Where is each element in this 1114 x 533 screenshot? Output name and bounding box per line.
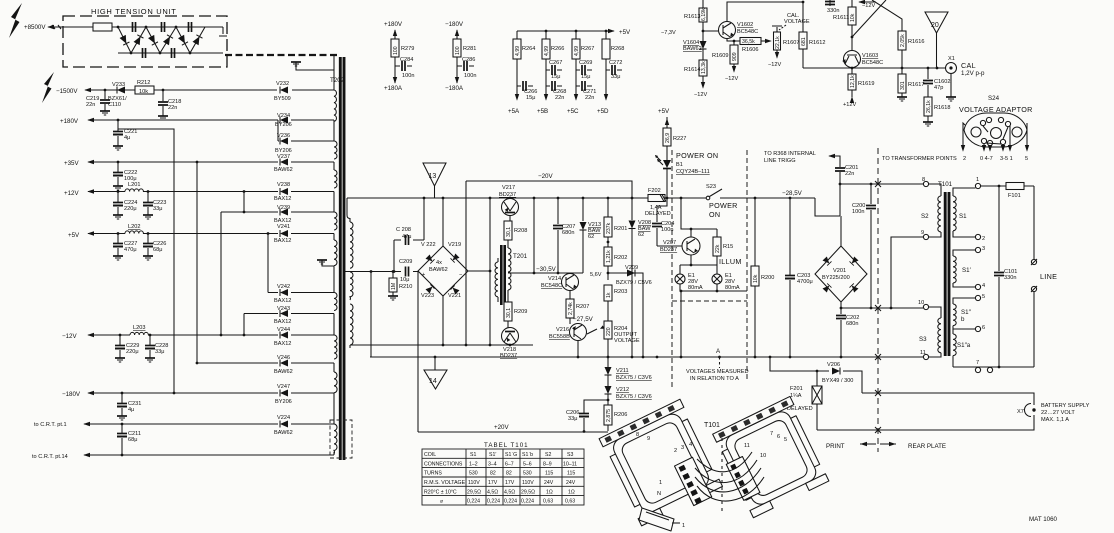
svg-text:V242: V242 xyxy=(277,284,290,290)
svg-text:BY206: BY206 xyxy=(275,399,292,405)
line 345 xyxy=(489,344,492,347)
svg-text:22n: 22n xyxy=(555,95,564,101)
svg-text:V1603: V1603 xyxy=(862,53,878,59)
lamp rail xyxy=(680,265,717,274)
capacitor (HT top 1) xyxy=(133,22,136,32)
svg-text:0,224: 0,224 xyxy=(487,499,500,505)
svg-text:R281: R281 xyxy=(463,46,476,52)
adaptor leads xyxy=(963,123,1027,149)
capacitor C269 xyxy=(576,69,592,71)
resistor (HT) xyxy=(93,23,112,31)
svg-text:V233: V233 xyxy=(112,82,125,88)
svg-text:R227: R227 xyxy=(673,136,686,142)
lamp E1 (left) xyxy=(675,274,685,284)
resistor R1613 xyxy=(702,0,704,31)
resistor R1616 xyxy=(898,31,906,50)
wire tap C209 line xyxy=(345,271,418,273)
diode V243 BAX12 xyxy=(244,314,334,336)
svg-text:5: 5 xyxy=(982,294,985,300)
svg-text:F202: F202 xyxy=(648,188,661,194)
svg-text:11: 11 xyxy=(744,443,750,449)
winding bundle between bobbins xyxy=(697,452,752,472)
triangle 13 xyxy=(423,163,446,186)
svg-text:30,1: 30,1 xyxy=(506,227,512,237)
lamp E1 (right) xyxy=(712,274,722,284)
svg-text:BAW62: BAW62 xyxy=(429,267,448,273)
svg-text:B1: B1 xyxy=(676,162,683,168)
svg-text:2,875: 2,875 xyxy=(606,409,612,422)
svg-text:V 222: V 222 xyxy=(421,242,436,248)
wire bottom of HT box xyxy=(118,52,223,54)
svg-text:BC558B: BC558B xyxy=(549,334,570,340)
svg-text:3: 3 xyxy=(681,445,684,451)
svg-text:6: 6 xyxy=(777,434,780,440)
+5V distribution bus xyxy=(517,30,614,32)
svg-text:F101: F101 xyxy=(1008,193,1021,199)
+20V feed vertical xyxy=(417,271,419,432)
svg-text:R1607: R1607 xyxy=(783,40,799,46)
svg-text:+: + xyxy=(422,272,425,278)
svg-text:10k: 10k xyxy=(753,274,759,283)
svg-text:R210: R210 xyxy=(399,284,412,290)
svg-text:+5C: +5C xyxy=(567,108,579,115)
svg-text:−12V: −12V xyxy=(725,76,738,82)
svg-text:530: 530 xyxy=(523,471,532,477)
diode V1604 BAW62 xyxy=(702,31,704,60)
svg-text:POWER: POWER xyxy=(709,201,738,210)
capacitor C211 68u xyxy=(121,424,123,455)
resistor R200 xyxy=(754,198,756,357)
svg-text:4,5Ω: 4,5Ω xyxy=(487,489,498,495)
svg-text:+8500V: +8500V xyxy=(24,24,46,31)
winding S1''a xyxy=(953,329,956,356)
svg-text:S1″: S1″ xyxy=(961,309,972,316)
svg-text:ILLUM: ILLUM xyxy=(719,257,742,266)
ground near T202 top xyxy=(296,62,334,70)
svg-text:680n: 680n xyxy=(562,230,574,236)
svg-text:L201: L201 xyxy=(128,182,140,188)
svg-text:TO TRANSFORMER POINTS: TO TRANSFORMER POINTS xyxy=(882,156,957,162)
svg-text:20: 20 xyxy=(931,22,939,29)
svg-text:22n: 22n xyxy=(86,102,95,108)
svg-text:0,224: 0,224 xyxy=(521,499,534,505)
svg-text:REAR PLATE: REAR PLATE xyxy=(908,443,946,450)
svg-text:R1611: R1611 xyxy=(833,15,849,21)
capacitor C228 33u xyxy=(149,335,151,358)
svg-text:100: 100 xyxy=(455,46,461,55)
transistor V218 BD237 xyxy=(502,328,519,345)
svg-text:4,99: 4,99 xyxy=(544,46,550,56)
svg-text:29,5Ω: 29,5Ω xyxy=(467,489,481,495)
svg-text:22k: 22k xyxy=(715,244,721,253)
svg-text:V234: V234 xyxy=(277,113,290,119)
diode V241 BAX12 xyxy=(274,224,291,244)
svg-text:4: 4 xyxy=(689,442,692,448)
resistor R1611 xyxy=(851,0,853,37)
capacitor C272 xyxy=(606,69,622,71)
capacitor C267 xyxy=(546,69,562,71)
svg-text:X1: X1 xyxy=(948,56,955,62)
svg-text:1,2V p-p: 1,2V p-p xyxy=(961,70,985,77)
capacitor C271 xyxy=(576,85,592,87)
svg-text:L203: L203 xyxy=(133,325,145,331)
diode V246 BAW62 xyxy=(197,362,334,364)
svg-text:T201: T201 xyxy=(513,253,528,260)
svg-text:BY509: BY509 xyxy=(274,96,291,102)
resistor R1606 36,5k xyxy=(740,38,761,45)
svg-text:R266: R266 xyxy=(551,46,564,52)
svg-text:BD237: BD237 xyxy=(660,247,677,253)
svg-text:1¼A: 1¼A xyxy=(790,393,802,399)
resistor R1612 xyxy=(802,1,805,4)
svg-text:82: 82 xyxy=(490,471,496,477)
svg-text:−12V: −12V xyxy=(694,92,707,98)
diode V239 BAX12 xyxy=(221,211,334,213)
svg-text:V214: V214 xyxy=(548,276,561,282)
svg-text:681: 681 xyxy=(801,37,807,46)
svg-text:115: 115 xyxy=(567,471,575,477)
svg-text:80mA: 80mA xyxy=(725,285,740,291)
capacitor C1602 47p xyxy=(927,68,929,97)
potentiometer R1607 xyxy=(774,32,781,50)
svg-text:BD237: BD237 xyxy=(500,353,517,359)
dashed enclosure power switch / illum xyxy=(672,150,747,390)
lightning bolt top-left xyxy=(9,3,22,38)
svg-text:22,1k: 22,1k xyxy=(775,36,781,49)
svg-text:+12V: +12V xyxy=(64,190,79,197)
transistor V207 BD237 xyxy=(682,237,700,255)
svg-text:DELAYED: DELAYED xyxy=(645,211,671,217)
svg-text:+5D: +5D xyxy=(597,108,609,115)
svg-text:CQY24B–111: CQY24B–111 xyxy=(676,169,710,175)
resistor R202 xyxy=(604,247,612,266)
terminal 9 xyxy=(923,234,928,239)
svg-text:3: 3 xyxy=(982,246,985,252)
capacitor C207 680n xyxy=(557,198,559,224)
diode V242 BAX12 xyxy=(268,234,334,293)
capacitor (HT bottom 1) xyxy=(143,48,146,58)
diode V213 BAW62 xyxy=(582,198,584,273)
feedback vertical from +35V xyxy=(196,162,198,363)
svg-text:VOLTAGES MEASURED: VOLTAGES MEASURED xyxy=(686,369,749,375)
svg-text:S24: S24 xyxy=(988,95,1000,102)
svg-text:IN RELATION TO A: IN RELATION TO A xyxy=(690,376,739,382)
resistor R268 xyxy=(605,31,607,98)
svg-text:2: 2 xyxy=(982,236,985,242)
svg-text:R1609: R1609 xyxy=(712,53,728,59)
zener V212 xyxy=(605,386,612,394)
svg-text:24V: 24V xyxy=(544,480,554,486)
svg-text:2,74k: 2,74k xyxy=(568,302,574,315)
svg-text:22n: 22n xyxy=(845,171,854,177)
svg-text:R201: R201 xyxy=(614,226,627,232)
svg-text:9: 9 xyxy=(647,436,650,442)
capacitor C202 680n xyxy=(836,316,846,319)
svg-text:5,6V: 5,6V xyxy=(590,272,602,278)
capacitor C286 xyxy=(457,65,474,67)
transistor V1603 xyxy=(844,51,861,68)
svg-text:80mA: 80mA xyxy=(688,285,703,291)
capacitor C229 220u xyxy=(119,335,121,358)
svg-text:4μ: 4μ xyxy=(124,135,130,141)
svg-text:3–4: 3–4 xyxy=(488,461,497,467)
base drive wires xyxy=(468,198,490,345)
svg-text:V221: V221 xyxy=(448,293,461,299)
capacitor C209 10u xyxy=(406,267,409,277)
svg-text:68μ: 68μ xyxy=(128,437,137,443)
C200 100n xyxy=(870,184,872,308)
svg-text:VOLTAGE: VOLTAGE xyxy=(784,19,810,25)
svg-text:LINE: LINE xyxy=(1040,272,1057,281)
svg-text:+180V: +180V xyxy=(384,21,403,28)
svg-text:47p: 47p xyxy=(934,85,943,91)
lamp bottoms to bus xyxy=(680,284,747,357)
svg-text:R1606: R1606 xyxy=(742,47,758,53)
svg-text:V219: V219 xyxy=(448,242,461,248)
svg-text:22n: 22n xyxy=(168,105,177,111)
svg-text:C 208: C 208 xyxy=(396,227,411,233)
svg-text:115: 115 xyxy=(545,471,553,477)
svg-text:330n: 330n xyxy=(1004,275,1016,281)
svg-text:BC548C: BC548C xyxy=(541,283,562,289)
terminal 8 xyxy=(923,181,928,186)
svg-text:S3: S3 xyxy=(919,336,927,343)
svg-text:−180V: −180V xyxy=(62,391,81,398)
diode ladder of multiplier xyxy=(118,27,205,53)
battery supply loop xyxy=(862,393,1034,405)
svg-text:0,224: 0,224 xyxy=(504,499,517,505)
transistor V214 BC548C xyxy=(562,274,579,291)
capacitor C266 xyxy=(517,85,533,87)
svg-text:36,5k: 36,5k xyxy=(742,39,755,45)
diode V236 BY206 (second phase) xyxy=(278,120,334,141)
resistor R204 output voltage xyxy=(604,321,612,339)
resistor R1619 xyxy=(851,68,853,97)
svg-text:+5V: +5V xyxy=(619,29,631,36)
svg-text:1k: 1k xyxy=(606,292,612,298)
svg-text:BAX12: BAX12 xyxy=(274,196,291,202)
fuse F201 xyxy=(816,371,818,430)
svg-text:220: 220 xyxy=(606,327,612,336)
svg-text:R1616: R1616 xyxy=(908,39,924,45)
svg-text:−12V: −12V xyxy=(862,3,875,9)
capacitor C208 47u xyxy=(394,198,424,272)
svg-text:22…27 VOLT: 22…27 VOLT xyxy=(1041,410,1075,416)
svg-text:1: 1 xyxy=(659,480,662,486)
svg-text:1,21k: 1,21k xyxy=(606,250,612,263)
terminal 5 xyxy=(975,295,980,300)
svg-text:V212: V212 xyxy=(616,387,629,393)
svg-text:26,1k: 26,1k xyxy=(926,100,932,113)
-28,5V elbow to bridge xyxy=(815,198,840,216)
svg-text:0,63: 0,63 xyxy=(543,499,553,505)
svg-text:10k: 10k xyxy=(139,89,148,95)
svg-text:BYX49 / 300: BYX49 / 300 xyxy=(822,378,853,384)
svg-text:V223: V223 xyxy=(421,293,434,299)
svg-text:5: 5 xyxy=(1025,156,1028,162)
svg-text:2: 2 xyxy=(674,448,677,454)
svg-text:V211: V211 xyxy=(616,368,629,374)
wires V207 collector/emitter xyxy=(681,198,717,265)
svg-text:S1ˈb: S1ˈb xyxy=(522,452,533,458)
svg-text:S1′: S1′ xyxy=(489,452,496,458)
svg-text:R200: R200 xyxy=(761,275,774,281)
svg-text:26,9: 26,9 xyxy=(665,133,671,143)
terminal 2 xyxy=(975,234,980,239)
capacitor 330n xyxy=(829,0,831,6)
svg-text:A: A xyxy=(716,348,721,355)
svg-text:CONNECTIONS: CONNECTIONS xyxy=(424,461,463,467)
capacitor C221 4u xyxy=(117,120,119,146)
svg-text:V244: V244 xyxy=(277,327,290,333)
svg-text:S1: S1 xyxy=(959,213,967,220)
svg-text:−20V: −20V xyxy=(538,173,553,180)
capacitor C223 33u xyxy=(147,192,149,216)
svg-text:10: 10 xyxy=(760,453,766,459)
svg-text:4,99: 4,99 xyxy=(515,46,521,56)
left terminal block xyxy=(674,457,711,505)
main bottom bus (A reference) xyxy=(370,356,926,358)
svg-text:N: N xyxy=(657,491,661,497)
right terminal block xyxy=(726,457,760,501)
svg-text:X7: X7 xyxy=(1017,409,1024,415)
svg-text:110V: 110V xyxy=(468,480,480,486)
svg-text:−12V: −12V xyxy=(62,333,77,340)
svg-text:R20°C ± 10°C: R20°C ± 10°C xyxy=(424,489,457,495)
svg-text:L202: L202 xyxy=(128,224,140,230)
svg-text:13,3k: 13,3k xyxy=(701,61,707,74)
svg-text:22n: 22n xyxy=(585,95,594,101)
svg-text:220μ: 220μ xyxy=(126,349,139,355)
svg-text:−27,5V: −27,5V xyxy=(573,316,594,323)
svg-text:V247: V247 xyxy=(277,384,290,390)
svg-text:ON: ON xyxy=(709,210,720,219)
svg-text:b: b xyxy=(961,316,965,323)
svg-text:to C.R.T. pt.1: to C.R.T. pt.1 xyxy=(34,422,67,428)
svg-text:VOLTAGE: VOLTAGE xyxy=(614,338,640,344)
svg-text:C286: C286 xyxy=(462,57,475,63)
svg-text:C284: C284 xyxy=(400,57,413,63)
svg-text:V207: V207 xyxy=(663,240,676,246)
svg-text:68μ: 68μ xyxy=(153,247,162,253)
svg-text:5–6: 5–6 xyxy=(523,461,532,467)
svg-text:1: 1 xyxy=(976,177,979,183)
svg-text:BAX12: BAX12 xyxy=(274,319,291,325)
svg-text:33μ: 33μ xyxy=(155,349,164,355)
svg-text:C269: C269 xyxy=(579,60,592,66)
resistor R209 xyxy=(504,302,512,321)
capacitor C231 4u xyxy=(121,393,123,416)
svg-text:0 4-7: 0 4-7 xyxy=(980,156,993,162)
svg-text:+12V: +12V xyxy=(843,102,856,108)
capacitor C201 22n xyxy=(835,168,845,171)
svg-text:−: − xyxy=(459,272,462,278)
svg-text:T101: T101 xyxy=(704,422,720,429)
svg-text:9: 9 xyxy=(921,230,924,236)
centre dashed axis xyxy=(721,438,723,515)
winding S1 xyxy=(953,188,975,196)
svg-text:C272: C272 xyxy=(609,60,622,66)
svg-text:T202: T202 xyxy=(330,77,345,84)
capacitor C224 220u xyxy=(117,192,119,216)
mid ground tap xyxy=(322,260,334,266)
collector line to CAL xyxy=(803,67,945,69)
svg-text:C267: C267 xyxy=(549,60,562,66)
svg-text:+5V: +5V xyxy=(658,108,670,115)
svg-text:12,1k: 12,1k xyxy=(850,75,856,88)
bottom wire xyxy=(953,366,1034,368)
svg-text:6–7: 6–7 xyxy=(505,461,514,467)
svg-text:4,5Ω: 4,5Ω xyxy=(504,489,515,495)
svg-text:LINE TRIGG: LINE TRIGG xyxy=(764,158,796,164)
svg-text:BAX12: BAX12 xyxy=(274,298,291,304)
svg-text:17V: 17V xyxy=(505,480,515,486)
mounting plate xyxy=(639,508,674,531)
svg-text:15μ: 15μ xyxy=(526,95,535,101)
svg-text:110V: 110V xyxy=(522,480,534,486)
capacitor C203 4700u xyxy=(789,198,791,357)
resistor R266 xyxy=(545,31,547,98)
crossing wires xyxy=(852,0,902,37)
svg-text:V241: V241 xyxy=(277,224,290,230)
triangle 14 xyxy=(434,357,436,370)
svg-text:−7,3V: −7,3V xyxy=(661,30,676,36)
svg-text:470μ: 470μ xyxy=(124,247,137,253)
diode V238 BAX12 xyxy=(274,182,291,202)
svg-text:10μ: 10μ xyxy=(400,277,409,283)
svg-text:V201: V201 xyxy=(833,268,846,274)
svg-text:+5V: +5V xyxy=(68,232,80,239)
svg-text:−1500V: −1500V xyxy=(56,88,78,95)
svg-text:V238: V238 xyxy=(277,182,290,188)
resistor R267 xyxy=(575,31,577,98)
svg-text:4700μ: 4700μ xyxy=(797,279,813,285)
wire top of HT box xyxy=(66,26,223,28)
svg-text:0,224: 0,224 xyxy=(467,499,480,505)
svg-text:S2: S2 xyxy=(921,213,929,220)
svg-text:0,63: 0,63 xyxy=(565,499,575,505)
svg-text:MAT 1060: MAT 1060 xyxy=(1029,516,1058,523)
svg-text:R202: R202 xyxy=(614,255,627,261)
EHT lead exit (heavy dashed) xyxy=(219,27,227,36)
terminal 10 xyxy=(923,304,928,309)
svg-text:100n: 100n xyxy=(464,73,476,79)
svg-text:30,1: 30,1 xyxy=(506,308,512,318)
svg-text:7: 7 xyxy=(770,431,773,437)
resistor R210 1M xyxy=(392,272,394,297)
svg-text:8: 8 xyxy=(636,432,639,438)
svg-text:14: 14 xyxy=(429,378,437,385)
svg-text:S1: S1 xyxy=(470,452,476,458)
svg-text:POWER ON: POWER ON xyxy=(676,151,718,160)
svg-text:BY225/200: BY225/200 xyxy=(822,275,850,281)
svg-text:BD237: BD237 xyxy=(499,192,516,198)
resistor R208 xyxy=(504,221,512,240)
svg-text:5: 5 xyxy=(784,437,787,443)
svg-text:V1602: V1602 xyxy=(737,22,753,28)
connector X7 xyxy=(1025,404,1032,417)
svg-text:BAX12: BAX12 xyxy=(274,238,291,244)
svg-text:R1617: R1617 xyxy=(908,82,924,88)
svg-text:V224: V224 xyxy=(277,415,290,421)
svg-text:S2: S2 xyxy=(545,452,551,458)
svg-text:33μ: 33μ xyxy=(611,74,620,80)
terminal 1 xyxy=(975,183,980,188)
resistor R1617 xyxy=(901,68,903,97)
svg-text:V206: V206 xyxy=(827,362,840,368)
wire through switch S23 xyxy=(667,197,815,199)
svg-text:V216: V216 xyxy=(556,327,569,333)
